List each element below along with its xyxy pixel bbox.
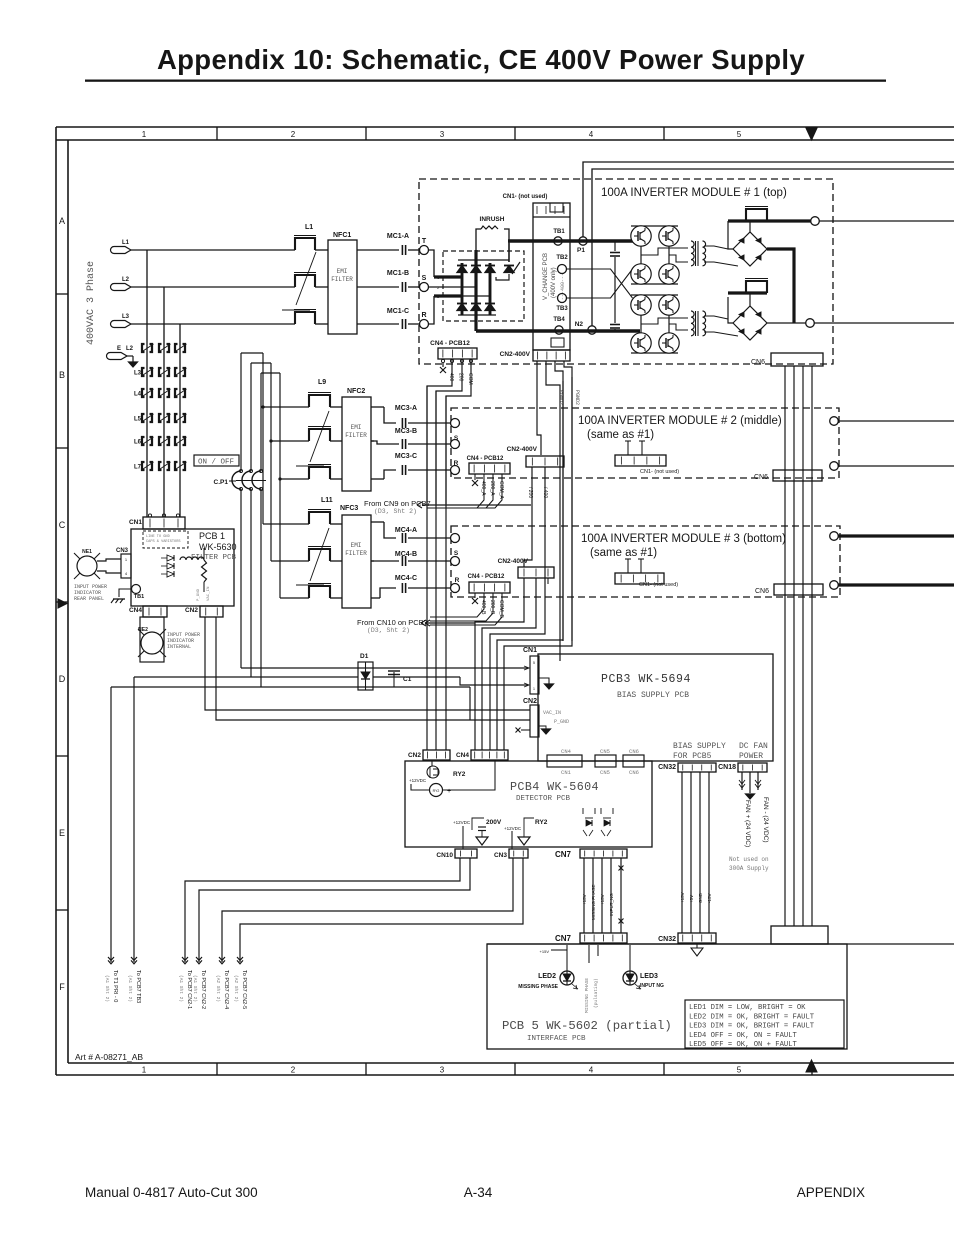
LED3 input ng (623, 971, 637, 985)
svg-text:FOR PCB5: FOR PCB5 (673, 752, 712, 761)
wire output bottom (767, 322, 806, 324)
svg-text:RY2: RY2 (433, 789, 440, 793)
svg-text:1: 1 (142, 1066, 147, 1075)
wires CN4-PCB12 down (441, 359, 444, 362)
PCB1 inner dashed varistor box (143, 531, 188, 548)
svg-text:L3: L3 (134, 371, 142, 377)
svg-text:400VAC 3 Phase: 400VAC 3 Phase (85, 261, 97, 345)
svg-text:+15V: +15V (582, 894, 587, 905)
terminals module3 right (830, 532, 839, 541)
wire horizontal D1 mid (134, 676, 358, 678)
wires CN2-400V down (537, 361, 541, 455)
svg-text:L9: L9 (318, 379, 326, 386)
svg-text:CN2: CN2 (408, 752, 421, 759)
thick output wire top (728, 219, 811, 222)
wire bus verticals 400 200 COM (426, 386, 428, 750)
connector CN1 module3 not used (615, 573, 664, 584)
svg-text:CN1: CN1 (561, 769, 572, 776)
capacitor C1 (393, 672, 395, 677)
svg-text:INPUT NG: INPUT NG (640, 983, 664, 989)
wire L2 phase (131, 286, 295, 288)
svg-text:FAN + (24 VDC): FAN + (24 VDC) (744, 800, 751, 847)
svg-text:+12VDC: +12VDC (504, 826, 522, 831)
svg-text:NFC3: NFC3 (340, 505, 358, 512)
svg-text:LED5 OFF = OK, ON + FAULT: LED5 OFF = OK, ON + FAULT (689, 1041, 798, 1049)
svg-text:(D3, Sht 2): (D3, Sht 2) (367, 627, 410, 634)
svg-text:MISSING PHASE: MISSING PHASE (591, 884, 596, 920)
terminal L2 (111, 284, 131, 291)
wire phase bus verticals to NFC2 NFC3 (262, 353, 264, 524)
svg-text:C.P1: C.P1 (214, 479, 229, 486)
svg-text:L11: L11 (321, 497, 333, 504)
wire taps NFC1 to breaker bus (146, 249, 148, 251)
wire L1 phase (131, 249, 295, 251)
svg-text:FILTER: FILTER (345, 432, 367, 439)
svg-text:5: 5 (737, 1066, 742, 1075)
svg-text:4: 4 (589, 130, 594, 139)
svg-text:REAR PANEL: REAR PANEL (74, 596, 104, 602)
svg-text:+5V: +5V (689, 895, 694, 903)
rectifier phase entries (434, 275, 462, 278)
svg-text:CN6: CN6 (629, 769, 639, 776)
choke output bottom (746, 281, 767, 293)
svg-text:CN7: CN7 (555, 850, 572, 859)
wire led2 (566, 945, 568, 971)
terminal TB3 (558, 294, 567, 303)
optocouplers (585, 817, 593, 819)
svg-text:COM_B: COM_B (498, 600, 504, 618)
svg-text:L4: L4 (134, 392, 142, 398)
svg-text:(A1 Sht 2): (A1 Sht 2) (178, 975, 184, 1002)
svg-text:To PCB7 CN2-2: To PCB7 CN2-2 (200, 970, 206, 1009)
svg-text:C1: C1 (403, 676, 412, 683)
svg-text:+12VDC: +12VDC (453, 820, 471, 825)
svg-text:300A Supply: 300A Supply (729, 865, 769, 872)
svg-text:CN32: CN32 (658, 936, 676, 943)
svg-text:100A INVERTER MODULE # 1 (top: 100A INVERTER MODULE # 1 (top) (601, 187, 787, 199)
svg-text:MC1-A: MC1-A (387, 233, 409, 240)
wires NFC1 through (315, 249, 328, 251)
svg-text:+: + (447, 788, 451, 795)
svg-text:CN1: CN1 (523, 647, 537, 654)
wire P1 riser bus (583, 162, 954, 237)
svg-text:CN2-400V: CN2-400V (507, 446, 538, 453)
frame row ticks left (56, 293, 68, 295)
svg-text:DC FAN: DC FAN (739, 742, 768, 751)
svg-text:Manual 0-4817 Auto-Cut 300: Manual 0-4817 Auto-Cut 300 (85, 1185, 258, 1200)
svg-text:(pulsating): (pulsating) (593, 978, 599, 1008)
wires NE1 to CN3 (97, 559, 121, 561)
wires CN10 to PCB7 (185, 858, 460, 962)
svg-text:TB1: TB1 (553, 229, 565, 235)
svg-text:5: 5 (737, 130, 742, 139)
wire horizontal into CN1 upper (241, 667, 528, 669)
choke output top (746, 209, 767, 221)
svg-text:CN6: CN6 (629, 748, 639, 755)
frame bottom arrow marker (806, 1060, 817, 1072)
svg-text:P_GND: P_GND (554, 719, 569, 725)
svg-text:L1: L1 (305, 224, 313, 231)
svg-text:400_A: 400_A (480, 481, 486, 496)
wires TB2 TB3 cross (567, 269, 633, 298)
inverter module 2 dashed box (451, 408, 839, 478)
svg-text:Not used on: Not used on (729, 856, 769, 863)
svg-text:CN4 - PCB12: CN4 - PCB12 (430, 340, 470, 347)
wire jog into CN1 lower (460, 677, 528, 685)
svg-text:+15V: +15V (680, 892, 685, 903)
svg-text:4: 4 (589, 1066, 594, 1075)
wires CN18 fan (741, 772, 743, 790)
svg-text:TB3: TB3 (556, 306, 568, 312)
svg-text:T: T (422, 238, 427, 245)
inverter module 3 dashed box (451, 526, 840, 597)
terminal L1 (111, 247, 131, 254)
thick vertical bridge link (767, 249, 794, 323)
wires NFC3 through (330, 523, 342, 525)
svg-text:LINE TO GND: LINE TO GND (146, 535, 170, 539)
svg-text:NE1: NE1 (82, 549, 92, 555)
frame left arrow marker (58, 599, 67, 608)
svg-text:4: 4 (125, 571, 128, 576)
svg-text:MISSING PHASE: MISSING PHASE (584, 978, 590, 1013)
svg-text:V_CHANGE PCB: V_CHANGE PCB (543, 253, 549, 300)
svg-text:L2: L2 (126, 346, 134, 352)
svg-text:400_B: 400_B (480, 600, 486, 615)
svg-text:CN4: CN4 (129, 607, 142, 614)
svg-text:FILTER: FILTER (345, 550, 367, 557)
svg-text:200V: 200V (486, 819, 502, 826)
wire stairs into PCB4 CN4 (475, 578, 524, 750)
choke L9 row2 (309, 429, 330, 441)
svg-text:FAN - (24 VDC): FAN - (24 VDC) (762, 797, 769, 843)
svg-text:CN1- (not used): CN1- (not used) (640, 469, 679, 475)
wire CN2 pin3 x (521, 729, 530, 731)
svg-text:LED3 DIM = OK, BRIGHT = FAUL: LED3 DIM = OK, BRIGHT = FAULT (689, 1023, 815, 1031)
frame column dividers bottom (216, 1063, 218, 1075)
svg-text:LED2 DIM = OK, BRIGHT = FAUL: LED2 DIM = OK, BRIGHT = FAULT (689, 1013, 815, 1021)
svg-text:PCB4 WK-5604: PCB4 WK-5604 (510, 780, 599, 794)
svg-text:Appendix 10: Schematic, CE 4: Appendix 10: Schematic, CE 400V Power Su… (157, 44, 805, 75)
svg-text:MC3-A: MC3-A (395, 405, 417, 412)
ground earth input (127, 355, 133, 357)
svg-text:CN2-400V: CN2-400V (498, 558, 529, 565)
svg-text:E: E (117, 346, 121, 352)
inductor L2 choke (295, 275, 315, 287)
svg-text:1: 1 (142, 130, 147, 139)
frame top arrow marker (806, 128, 817, 140)
IGBT bridge top (631, 226, 651, 246)
PCB5 box WK-5602 (487, 943, 954, 945)
svg-text:D1: D1 (360, 653, 369, 660)
svg-text:S: S (422, 275, 427, 282)
terminal N2 (588, 326, 596, 334)
PCB1 coil (180, 557, 204, 560)
svg-text:(400V only): (400V only) (551, 267, 557, 298)
svg-text:TB1: TB1 (134, 594, 144, 600)
svg-text:MC4-A: MC4-A (395, 527, 417, 534)
wires through breaker (240, 353, 242, 471)
svg-text:POWER: POWER (739, 752, 763, 761)
svg-text:B: B (59, 370, 65, 380)
svg-text:RY2: RY2 (535, 819, 548, 826)
svg-text:WK-5630: WK-5630 (199, 542, 237, 552)
svg-text:CN3: CN3 (116, 548, 129, 554)
output terminal module1 bottom (806, 319, 815, 328)
svg-text:MISSING PHASE: MISSING PHASE (518, 984, 558, 990)
svg-text:CN2: CN2 (185, 607, 198, 614)
wires PCB1 to T1 PRI (133, 677, 135, 962)
svg-text:EMI: EMI (351, 424, 362, 431)
svg-text:A: A (59, 216, 65, 226)
PCB3 box WK-5694 (538, 654, 773, 761)
choke L9 row3 (309, 467, 330, 479)
IGBT bridge top rails (631, 225, 678, 227)
svg-text:CN4: CN4 (561, 748, 572, 755)
svg-text:R: R (421, 312, 426, 319)
wire phase tap verticals (146, 250, 148, 517)
wire L3 phase (131, 323, 295, 325)
svg-text:1: 1 (533, 687, 535, 691)
rectifier dashed box (443, 251, 524, 321)
svg-text:CN7: CN7 (555, 934, 572, 943)
svg-text:N2: N2 (575, 321, 584, 328)
svg-text:To T1 PRI - 0: To T1 PRI - 0 (112, 970, 118, 1002)
svg-text:L2: L2 (122, 277, 130, 283)
svg-text:+15V: +15V (540, 949, 550, 954)
svg-text:LED1 DIM = LOW, BRIGHT = OK: LED1 DIM = LOW, BRIGHT = OK (689, 1004, 806, 1012)
svg-text:To PCB7 CN2-5: To PCB7 CN2-5 (241, 970, 247, 1009)
rectifier diodes (457, 266, 467, 273)
thick bus P rail (508, 239, 633, 242)
frame bottom band (68, 1062, 954, 1064)
wire horizontal D1 lower (111, 686, 470, 688)
svg-text:CN6: CN6 (754, 474, 768, 481)
svg-text:CN32: CN32 (658, 764, 676, 771)
svg-text:APPENDIX: APPENDIX (797, 1185, 865, 1200)
wires CN32 bundle (681, 772, 683, 933)
terminal TB1 PCB1 (132, 585, 141, 594)
svg-text:CN3: CN3 (494, 852, 507, 859)
transformer T1 secondary wires (704, 246, 728, 249)
svg-text:CN2-400V: CN2-400V (500, 351, 531, 358)
bridge rectifier diamond bottom (733, 306, 767, 340)
svg-text:L6: L6 (134, 440, 142, 446)
PCB4 box WK-5604 (405, 761, 652, 847)
svg-text:LED4 OFF = OK, ON = FAULT: LED4 OFF = OK, ON = FAULT (689, 1032, 798, 1040)
svg-text:GND: GND (698, 892, 703, 903)
svg-text:Art # A-08271_AB: Art # A-08271_AB (75, 1052, 143, 1062)
choke L11 row3 (309, 586, 330, 598)
svg-text:F: F (59, 982, 65, 992)
svg-text:+12VDC: +12VDC (409, 778, 427, 783)
wires NFC2 through (330, 406, 342, 408)
svg-text:200_A: 200_A (489, 481, 495, 496)
svg-text:PCB 5 WK-5602 (partial): PCB 5 WK-5602 (partial) (502, 1019, 672, 1033)
svg-text:INTERFACE PCB: INTERFACE PCB (527, 1035, 586, 1043)
capacitor bus module1 top (614, 241, 616, 251)
choke L11 row2 (309, 549, 330, 561)
svg-text:/ 200: / 200 (527, 487, 533, 498)
svg-text:MC4-C: MC4-C (395, 575, 417, 582)
connector CN6 bundle box PCB5 (771, 926, 828, 944)
svg-text:CN4 - PCB12: CN4 - PCB12 (468, 574, 505, 580)
svg-text:(A1 Sht 2): (A1 Sht 2) (192, 975, 198, 1002)
svg-text:From CN10 on PCB7: From CN10 on PCB7 (357, 618, 428, 627)
arrow from CN10 wire (425, 620, 430, 626)
transformer T2 bottom (691, 311, 694, 336)
svg-text:TB4: TB4 (553, 317, 565, 323)
contactor bank CB rows (142, 344, 145, 352)
svg-text:100A INVERTER MODULE # 2 (mid: 100A INVERTER MODULE # 2 (middle) (578, 415, 782, 427)
choke core slash NFC1 (296, 252, 316, 305)
wire stubs bus to NFC2 (263, 406, 309, 408)
inverter module 1 dashed box (419, 179, 833, 364)
frame column dividers top (216, 127, 218, 140)
svg-text:VAC_IN: VAC_IN (543, 710, 561, 716)
svg-text:400: 400 (448, 373, 454, 382)
svg-text:CN18: CN18 (718, 764, 736, 771)
svg-text:L7: L7 (134, 465, 142, 471)
svg-text:(A1 Sht 2): (A1 Sht 2) (127, 975, 133, 1002)
svg-text:P_GND: P_GND (197, 588, 201, 601)
svg-text:CN6: CN6 (755, 588, 769, 595)
svg-text:(same as #1): (same as #1) (587, 429, 654, 441)
svg-text:DETECTOR PCB: DETECTOR PCB (516, 795, 571, 803)
svg-text:P1: P1 (577, 247, 585, 254)
svg-text:ON / OFF: ON / OFF (198, 459, 234, 467)
rectifier thick columns (461, 263, 464, 315)
svg-text:CN5: CN5 (600, 748, 610, 755)
title rule (85, 80, 886, 82)
svg-text:NFC2: NFC2 (347, 388, 365, 395)
wires CN3 to PCB7 (222, 858, 513, 962)
svg-text:RY2: RY2 (453, 771, 466, 778)
svg-text:E: E (59, 828, 65, 838)
bridge bottom transformer taps (641, 318, 688, 324)
svg-text:COM_A: COM_A (498, 481, 504, 499)
svg-text:COM: COM (467, 373, 473, 385)
svg-text:CN1- (not used): CN1- (not used) (503, 194, 548, 200)
svg-text:200: 200 (458, 373, 464, 382)
wires CN7 into PCB5 (588, 945, 590, 963)
IGBT bridge bottom (631, 295, 651, 315)
svg-text:EMI: EMI (337, 268, 348, 275)
wires CN6 bundle (784, 366, 786, 926)
svg-text:CN1- (not used): CN1- (not used) (639, 582, 678, 588)
svg-text:To PCB7 CN2-4: To PCB7 CN2-4 (223, 970, 229, 1009)
svg-text:CN10: CN10 (436, 852, 453, 859)
svg-text:MC1-B: MC1-B (387, 270, 409, 277)
terminals module3 left (451, 534, 460, 543)
svg-text:D: D (59, 674, 66, 684)
svg-text:2: 2 (291, 130, 296, 139)
wire T into rectifier (429, 250, 435, 277)
breaker feed buses (241, 352, 263, 354)
terminal L3 (111, 321, 131, 328)
wire CN4 inputs (474, 744, 476, 750)
svg-text:(D3, Sht 2): (D3, Sht 2) (374, 508, 417, 515)
wire R into rectifier (429, 296, 435, 324)
svg-text:BIAS SUPPLY PCB: BIAS SUPPLY PCB (617, 691, 689, 700)
svg-text:PCB3 WK-5694: PCB3 WK-5694 (601, 673, 691, 686)
PCB1 box WK-5630 (131, 529, 234, 606)
thick bus N rail (476, 329, 640, 332)
terminals module2 left (451, 419, 460, 428)
wires CN2-400V module2 down (524, 467, 532, 567)
svg-text:5: 5 (533, 661, 535, 665)
relay coil RY2 (430, 784, 443, 797)
svg-text:+15V: +15V (600, 894, 605, 905)
svg-text:3: 3 (440, 1066, 445, 1075)
svg-text:100A INVERTER MODULE # 3 (bot: 100A INVERTER MODULE # 3 (bottom) (581, 533, 786, 545)
rectifier rails (458, 259, 509, 261)
svg-text:To PCB7 TB3: To PCB7 TB3 (135, 970, 141, 1003)
wires CN4 module2 pins (474, 474, 476, 480)
svg-text:PCB 1: PCB 1 (199, 531, 225, 541)
svg-text:CN5: CN5 (600, 769, 610, 776)
svg-text:VAC_IN: VAC_IN (207, 586, 211, 601)
inductor L3 choke (295, 312, 315, 324)
V change bottom notch (551, 338, 564, 347)
svg-text:CN4 - PCB12: CN4 - PCB12 (467, 456, 504, 462)
svg-text:INPUT_NG: INPUT_NG (609, 893, 614, 916)
PCB1 diodes (167, 555, 174, 561)
wire stubs bus to NFC3 (263, 523, 309, 525)
ON / OFF box (194, 455, 239, 466)
wire N2 riser bus (592, 169, 954, 326)
ground TB1 (119, 589, 131, 597)
svg-text:(A1 Sht 2): (A1 Sht 2) (104, 975, 110, 1002)
svg-text:C: C (59, 520, 66, 530)
svg-text:A-34: A-34 (464, 1185, 493, 1200)
ground below CN32 (696, 943, 698, 948)
connector CN1 module2 not used (615, 455, 666, 466)
core slash NFC2 (310, 411, 329, 462)
svg-text:MC3-C: MC3-C (395, 453, 417, 460)
svg-text:NFC1: NFC1 (333, 232, 351, 239)
svg-text:CAPS & VARISTORS: CAPS & VARISTORS (146, 540, 181, 544)
svg-text:EMI: EMI (351, 542, 362, 549)
wires CN2-400V module3 down stair (547, 578, 549, 584)
svg-text:1: 1 (125, 557, 128, 562)
svg-text:FILTER: FILTER (331, 276, 353, 283)
svg-text:(A2 Sht 2): (A2 Sht 2) (233, 975, 239, 1002)
svg-text:L1: L1 (122, 240, 130, 246)
core slash NFC3 (310, 528, 329, 581)
svg-text:LED2: LED2 (538, 973, 556, 980)
terminals module2 right (830, 417, 839, 426)
LED legend box (685, 1000, 844, 1048)
outer frame top band (56, 126, 954, 128)
svg-text:To PCB7 CN2-1: To PCB7 CN2-1 (186, 970, 192, 1009)
wires CN7 bundle (583, 858, 585, 933)
svg-text:BIAS SUPPLY: BIAS SUPPLY (673, 742, 726, 751)
PCB1 resistor (202, 560, 207, 582)
wires CN2 PCB1 down to PCB3 (205, 617, 530, 710)
junction dots phase bus (262, 406, 265, 409)
svg-text:---400---: ---400--- (560, 273, 566, 300)
svg-text:CN6: CN6 (751, 359, 765, 366)
svg-text:2: 2 (291, 1066, 296, 1075)
transformer T2 secondary wires (704, 316, 728, 319)
ground CN1 PCB3 (539, 678, 549, 684)
wires CN4 module3 pins (474, 593, 476, 598)
svg-text:200_B: 200_B (489, 600, 495, 615)
bridge top transformer taps (641, 248, 688, 255)
svg-text:L5: L5 (134, 417, 142, 423)
svg-text:CN4: CN4 (456, 752, 469, 759)
svg-text:LED3: LED3 (640, 973, 658, 980)
